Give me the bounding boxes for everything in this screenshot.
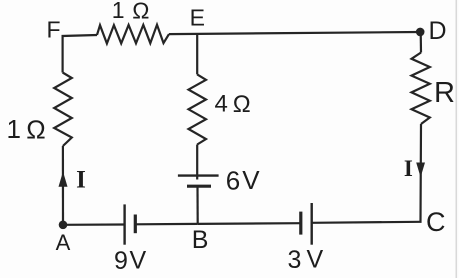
resistor 1 ohm (left, F-A branch) [54,73,72,147]
wire node E down to 4-ohm resistor [196,34,198,75]
resistor 1 ohm (top, F-E) [97,25,169,44]
svg-text:I: I [76,166,86,193]
svg-text:Ω: Ω [26,114,45,144]
svg-text:D: D [428,17,446,45]
wire top: resistor end through node E to node D [169,32,420,34]
svg-text:6: 6 [226,165,240,195]
current arrow I (left branch, pointing up) [59,172,68,187]
svg-text:3: 3 [287,246,301,274]
battery 9V plates [125,204,136,244]
svg-text:9: 9 [114,247,128,275]
svg-text:F: F [46,17,60,43]
wire 3V battery to corner C [312,222,421,223]
svg-text:V: V [307,246,324,274]
battery 3V plates [301,203,312,245]
svg-text:I: I [404,156,413,181]
wire 4-ohm resistor to 6V battery [196,145,198,180]
svg-text:A: A [56,230,71,255]
current arrow I (right branch, pointing down) [416,163,425,178]
svg-text:Ω: Ω [132,0,149,23]
svg-text:1: 1 [112,0,125,23]
wire resistor R down to corner C [419,124,422,222]
junction dot node D [416,28,425,37]
svg-text:B: B [192,226,209,254]
resistor 4 ohm (middle, E-B branch) [189,74,207,144]
wire F corner to top 1-ohm resistor [63,35,97,73]
svg-text:C: C [426,207,446,237]
wire 6V battery down to node B [196,186,198,224]
svg-text:4: 4 [215,91,228,118]
svg-text:V: V [242,165,260,195]
junction dot node A [59,221,68,230]
svg-text:R: R [434,77,455,109]
wire left resistor down to node A [62,146,64,225]
battery 6V plates [178,176,219,187]
wire node D down to resistor R [420,32,422,53]
svg-text:1: 1 [6,114,20,144]
wire node B to 3V battery [198,222,301,225]
svg-text:Ω: Ω [233,91,251,118]
svg-text:E: E [190,5,205,31]
resistor R (right, D-C branch) [412,53,430,125]
wire 9V battery to node B [135,223,197,226]
wire node A to 9V battery [63,223,125,226]
svg-text:V: V [130,247,147,275]
